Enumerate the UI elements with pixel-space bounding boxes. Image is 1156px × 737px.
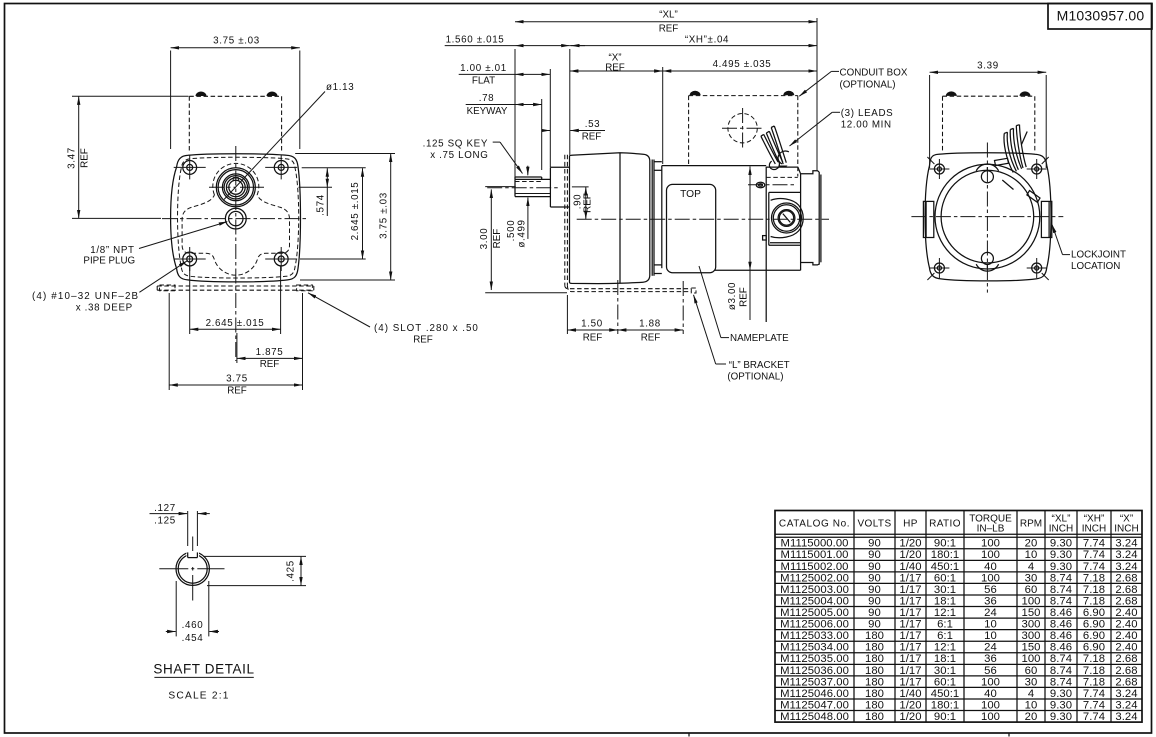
svg-text:90:1: 90:1 <box>934 538 956 550</box>
svg-text:9.30: 9.30 <box>1050 549 1072 561</box>
dimension 2.645 +-.015 (bottom bolt spacing) <box>190 328 281 330</box>
svg-text:90: 90 <box>868 561 881 573</box>
svg-text:150: 150 <box>1022 607 1041 619</box>
rear view: stray wire stroke <box>1022 132 1028 145</box>
svg-text:56: 56 <box>984 584 997 596</box>
svg-text:40: 40 <box>984 688 997 700</box>
svg-text:8.46: 8.46 <box>1050 619 1072 631</box>
dimension 3.75 +-.03 (top width) <box>170 51 172 150</box>
svg-text:56: 56 <box>984 665 997 677</box>
svg-text:2.40: 2.40 <box>1115 630 1137 642</box>
svg-text:7.18: 7.18 <box>1083 595 1105 607</box>
front view: bolt extension lines down <box>189 266 191 334</box>
svg-text:8.46: 8.46 <box>1050 607 1072 619</box>
front view: vertical centerline <box>235 146 237 361</box>
shaft detail: center crosshairs <box>159 568 188 570</box>
svg-text:7.74: 7.74 <box>1083 561 1105 573</box>
svg-text:2.645 ±.015: 2.645 ±.015 <box>350 182 361 241</box>
svg-text:REF: REF <box>641 333 661 344</box>
svg-text:7.74: 7.74 <box>1083 538 1105 550</box>
svg-text:REF: REF <box>605 62 625 73</box>
svg-text:4.495 ±.035: 4.495 ±.035 <box>713 59 772 70</box>
svg-text:M1125006.00: M1125006.00 <box>780 619 849 631</box>
side view: wire loops at base <box>769 161 779 169</box>
svg-text:100: 100 <box>981 538 1000 550</box>
svg-text:180: 180 <box>865 630 884 642</box>
svg-text:(4) #10–32 UNF–2B: (4) #10–32 UNF–2B <box>32 291 139 302</box>
svg-text:KEYWAY: KEYWAY <box>467 106 508 117</box>
svg-text:100: 100 <box>981 549 1000 561</box>
svg-text:12:1: 12:1 <box>934 642 956 654</box>
svg-text:2.40: 2.40 <box>1115 607 1137 619</box>
svg-text:24: 24 <box>984 642 997 654</box>
dimension 3.47 REF (left height) <box>72 95 189 97</box>
svg-text:3.39: 3.39 <box>977 60 999 71</box>
svg-text:IN–LB: IN–LB <box>977 524 1005 535</box>
svg-text:3.75 ±.03: 3.75 ±.03 <box>213 36 260 47</box>
svg-text:9.30: 9.30 <box>1050 538 1072 550</box>
svg-text:REF: REF <box>739 287 750 307</box>
svg-text:40: 40 <box>984 561 997 573</box>
front view: pipe plug circles <box>225 208 246 229</box>
svg-text:M1125003.00: M1125003.00 <box>780 584 849 596</box>
svg-text:300: 300 <box>1022 619 1041 631</box>
svg-text:ø.499: ø.499 <box>517 219 528 247</box>
svg-text:NAMEPLATE: NAMEPLATE <box>730 333 789 344</box>
svg-text:M1125036.00: M1125036.00 <box>780 665 849 677</box>
side view: output shaft key <box>515 176 542 178</box>
svg-text:.127: .127 <box>154 503 176 514</box>
svg-text:7.74: 7.74 <box>1083 711 1105 723</box>
svg-text:REF: REF <box>583 193 594 213</box>
dimension XH +-.04 and 1.560 +-.015 (shared line) <box>569 49 571 155</box>
svg-text:8.74: 8.74 <box>1050 665 1072 677</box>
side view: motor rear face line <box>765 167 767 322</box>
svg-text:60:1: 60:1 <box>934 676 956 688</box>
dimension .53 REF <box>543 130 551 132</box>
svg-text:1.88: 1.88 <box>639 319 661 330</box>
svg-text:SCALE 2:1: SCALE 2:1 <box>168 691 229 702</box>
svg-text:100: 100 <box>981 699 1000 711</box>
svg-text:30:1: 30:1 <box>934 665 956 677</box>
svg-text:REF: REF <box>227 386 247 397</box>
svg-text:“XH”±.04: “XH”±.04 <box>685 34 729 45</box>
svg-text:M1125002.00: M1125002.00 <box>780 572 849 584</box>
dimension X REF and 4.495 +-.035 (shared line) <box>662 67 664 164</box>
svg-text:7.18: 7.18 <box>1083 653 1105 665</box>
svg-text:20: 20 <box>1025 538 1038 550</box>
side view: motor cylinder body <box>662 165 766 167</box>
svg-text:100: 100 <box>981 572 1000 584</box>
svg-text:“L” BRACKET: “L” BRACKET <box>729 360 790 371</box>
svg-text:2.40: 2.40 <box>1115 619 1137 631</box>
rear view: conduit box bolt head arcs <box>946 91 957 96</box>
svg-text:(OPTIONAL): (OPTIONAL) <box>727 372 783 383</box>
side view: brake release keyhole circles <box>772 203 802 233</box>
svg-text:9.30: 9.30 <box>1050 561 1072 573</box>
svg-text:36: 36 <box>984 595 997 607</box>
svg-text:8.74: 8.74 <box>1050 572 1072 584</box>
side view: L-bracket (dashed, optional) <box>564 155 566 285</box>
svg-text:M1115002.00: M1115002.00 <box>781 561 849 573</box>
svg-text:10: 10 <box>1025 549 1038 561</box>
svg-text:HP: HP <box>903 519 918 530</box>
svg-text:3.47: 3.47 <box>67 147 78 169</box>
svg-text:8.74: 8.74 <box>1050 595 1072 607</box>
svg-text:90:1: 90:1 <box>934 711 956 723</box>
svg-text:9.30: 9.30 <box>1050 688 1072 700</box>
svg-text:300: 300 <box>1022 630 1041 642</box>
side view: rear end cover <box>818 172 820 265</box>
svg-text:x .38 DEEP: x .38 DEEP <box>76 303 133 314</box>
svg-text:24: 24 <box>984 607 997 619</box>
svg-text:.53: .53 <box>585 119 601 130</box>
dimension 2.645 +-.015 (right bolt spacing) <box>300 258 366 260</box>
rear view: lockjoint tab left <box>923 201 933 237</box>
front view: shaft keyway tick <box>232 177 234 181</box>
svg-text:1/20: 1/20 <box>899 549 921 561</box>
side view: brake housing behind motor <box>766 166 798 168</box>
side view: output shaft body <box>515 178 551 180</box>
svg-text:10: 10 <box>984 619 997 631</box>
svg-text:1/17: 1/17 <box>899 642 921 654</box>
svg-text:180: 180 <box>865 699 884 711</box>
svg-text:180: 180 <box>865 676 884 688</box>
svg-text:8.74: 8.74 <box>1050 584 1072 596</box>
rear view: motor shell inner circle <box>941 170 1034 263</box>
side view: gearbox bearing boss <box>549 167 551 207</box>
svg-text:TOP: TOP <box>680 189 701 200</box>
rear view: motor rear body outline <box>925 153 1051 281</box>
side view: gearbox rear flange rings <box>651 160 653 276</box>
svg-text:FLAT: FLAT <box>472 75 495 86</box>
svg-text:M1115001.00: M1115001.00 <box>781 549 849 561</box>
svg-text:SHAFT DETAIL: SHAFT DETAIL <box>153 662 254 677</box>
front view: output shaft bore circles o1.13 <box>216 168 255 207</box>
svg-text:8.74: 8.74 <box>1050 676 1072 688</box>
svg-text:LOCKJOINT: LOCKJOINT <box>1071 250 1126 261</box>
title block box <box>1048 4 1152 30</box>
svg-text:18:1: 18:1 <box>934 653 956 665</box>
svg-text:1.560 ±.015: 1.560 ±.015 <box>446 34 505 45</box>
dimension 1.88 REF <box>682 281 684 334</box>
svg-text:12:1: 12:1 <box>934 607 956 619</box>
svg-text:RPM: RPM <box>1020 519 1042 530</box>
svg-text:1.50: 1.50 <box>581 319 603 330</box>
svg-text:1/20: 1/20 <box>899 699 921 711</box>
svg-text:90: 90 <box>868 619 881 631</box>
dimension 1.00 +-.01 FLAT <box>549 69 551 167</box>
svg-text:6.90: 6.90 <box>1083 607 1105 619</box>
svg-text:M1125004.00: M1125004.00 <box>780 595 849 607</box>
side view: gearbox housing outline <box>570 153 650 284</box>
svg-text:180: 180 <box>865 688 884 700</box>
svg-text:.425: .425 <box>286 560 297 582</box>
side view: conduit box (dashed, optional) <box>688 96 690 165</box>
svg-text:180: 180 <box>865 665 884 677</box>
svg-text:4: 4 <box>1028 688 1034 700</box>
svg-text:36: 36 <box>984 653 997 665</box>
svg-text:450:1: 450:1 <box>931 561 960 573</box>
shaft detail: shaft circles <box>176 552 209 585</box>
svg-text:“XL”: “XL” <box>659 10 678 21</box>
dimension 3.75 REF (bottom full) <box>168 293 170 390</box>
shaft detail: keyway notch <box>187 552 189 557</box>
svg-text:2.68: 2.68 <box>1115 595 1137 607</box>
svg-text:60:1: 60:1 <box>934 572 956 584</box>
svg-text:3.24: 3.24 <box>1115 561 1137 573</box>
front view: horizontal centerline <box>162 218 307 220</box>
svg-text:REF: REF <box>492 229 503 249</box>
svg-text:1.00 ±.01: 1.00 ±.01 <box>460 63 507 74</box>
front view: motor outline hidden behind gearbox (dashed) <box>188 96 190 153</box>
svg-text:7.18: 7.18 <box>1083 572 1105 584</box>
svg-text:10: 10 <box>1025 699 1038 711</box>
svg-text:3.75: 3.75 <box>226 374 248 385</box>
svg-text:3.00: 3.00 <box>479 228 490 250</box>
svg-text:90: 90 <box>868 595 881 607</box>
front view: mounting-face edge (dashed inner outline) <box>178 157 299 278</box>
svg-text:100: 100 <box>1022 595 1041 607</box>
svg-text:1/17: 1/17 <box>899 665 921 677</box>
rear view: wire leader stroke inside shell <box>1002 180 1013 190</box>
svg-text:1/17: 1/17 <box>899 653 921 665</box>
side view: small bolt ellipse at brake <box>756 182 765 187</box>
dimension .425 with extension lines <box>203 555 306 557</box>
svg-text:30: 30 <box>1025 572 1038 584</box>
rear view: shell seam marks <box>995 158 1009 165</box>
svg-text:M1125005.00: M1125005.00 <box>780 607 849 619</box>
rear view: vertical centerline <box>986 143 988 293</box>
svg-text:100: 100 <box>981 676 1000 688</box>
bottom edge fold marks <box>688 733 690 737</box>
svg-text:1/40: 1/40 <box>899 561 921 573</box>
svg-text:1/17: 1/17 <box>899 676 921 688</box>
svg-text:7.74: 7.74 <box>1083 549 1105 561</box>
svg-text:2.40: 2.40 <box>1115 642 1137 654</box>
svg-text:18:1: 18:1 <box>934 595 956 607</box>
svg-text:ø3.00: ø3.00 <box>727 282 738 310</box>
svg-text:20: 20 <box>1025 711 1038 723</box>
svg-text:3.24: 3.24 <box>1115 699 1137 711</box>
dimension .90 REF (center offset) <box>572 186 589 188</box>
svg-text:6.90: 6.90 <box>1083 619 1105 631</box>
svg-text:M1125047.00: M1125047.00 <box>780 699 849 711</box>
dimension .78 KEYWAY <box>541 99 543 170</box>
svg-text:.125 SQ KEY: .125 SQ KEY <box>423 139 488 150</box>
rear view: corner diagonal ticks <box>927 157 934 164</box>
svg-text:90: 90 <box>868 549 881 561</box>
svg-text:30: 30 <box>1025 676 1038 688</box>
svg-text:3.24: 3.24 <box>1115 538 1137 550</box>
svg-text:REF: REF <box>583 333 603 344</box>
svg-text:.574: .574 <box>316 194 327 216</box>
svg-text:7.18: 7.18 <box>1083 676 1105 688</box>
svg-text:CATALOG No.: CATALOG No. <box>779 519 850 530</box>
svg-text:.454: .454 <box>182 633 204 644</box>
svg-text:INCH: INCH <box>1049 524 1073 535</box>
side view: shaft centerline <box>487 187 560 189</box>
svg-text:1/17: 1/17 <box>899 607 921 619</box>
svg-text:2.68: 2.68 <box>1115 572 1137 584</box>
svg-text:180: 180 <box>865 711 884 723</box>
svg-text:7.74: 7.74 <box>1083 688 1105 700</box>
svg-text:6.90: 6.90 <box>1083 630 1105 642</box>
svg-text:M1125046.00: M1125046.00 <box>780 688 849 700</box>
rear view: conduit box outline hidden (dashed) <box>942 96 944 152</box>
dimension 3.75 +-.03 (right height) <box>295 153 395 155</box>
side view: gearbox case split line <box>619 153 621 283</box>
svg-text:2.68: 2.68 <box>1115 676 1137 688</box>
svg-text:6:1: 6:1 <box>937 630 953 642</box>
front view: mounting bolt holes #10-32 <box>174 155 206 179</box>
svg-text:RATIO: RATIO <box>929 519 961 530</box>
dimension XL REF (overall length) <box>514 49 516 177</box>
svg-text:2.68: 2.68 <box>1115 653 1137 665</box>
svg-text:9.30: 9.30 <box>1050 711 1072 723</box>
svg-text:M1125034.00: M1125034.00 <box>780 642 849 654</box>
svg-text:1/20: 1/20 <box>899 538 921 550</box>
svg-text:3.24: 3.24 <box>1115 688 1137 700</box>
svg-text:60: 60 <box>1025 665 1038 677</box>
svg-text:M1115000.00: M1115000.00 <box>781 538 849 550</box>
front view: bolt head arcs on top of motor outline <box>196 92 207 97</box>
svg-text:60: 60 <box>1025 584 1038 596</box>
svg-text:M1125035.00: M1125035.00 <box>780 653 849 665</box>
dimension o3.00 REF (motor diameter) <box>749 166 751 270</box>
svg-text:1/17: 1/17 <box>899 595 921 607</box>
side view: motor leads (3 wires) <box>761 136 775 164</box>
svg-text:450:1: 450:1 <box>931 688 960 700</box>
front view: gasket clover outline (dashed) <box>182 163 289 275</box>
svg-text:90: 90 <box>868 538 881 550</box>
svg-text:1.875: 1.875 <box>256 347 284 358</box>
svg-text:9.30: 9.30 <box>1050 699 1072 711</box>
dimension 1.875 REF (bottom) <box>236 333 238 363</box>
svg-text:M1125048.00: M1125048.00 <box>780 711 849 723</box>
svg-text:LOCATION: LOCATION <box>1071 261 1120 272</box>
rear view: motor shell outer circle <box>935 164 1040 269</box>
svg-text:PIPE PLUG: PIPE PLUG <box>83 256 135 267</box>
side view: motor centerline <box>577 218 829 220</box>
svg-text:1/8” NPT: 1/8” NPT <box>90 245 134 256</box>
svg-text:1/20: 1/20 <box>899 711 921 723</box>
svg-text:.78: .78 <box>479 93 495 104</box>
rear view: lockjoint tab right <box>1041 201 1051 237</box>
dimension 3.00 REF (shaft height) <box>485 186 516 188</box>
svg-text:7.18: 7.18 <box>1083 584 1105 596</box>
svg-text:100: 100 <box>981 711 1000 723</box>
rear view: corner bolts <box>929 159 949 179</box>
svg-text:(4) SLOT .280 x .50: (4) SLOT .280 x .50 <box>374 323 479 334</box>
svg-text:VOLTS: VOLTS <box>857 519 891 530</box>
svg-text:30:1: 30:1 <box>934 584 956 596</box>
rear view: leads wires <box>1004 133 1013 172</box>
svg-text:x .75 LONG: x .75 LONG <box>430 150 488 161</box>
svg-text:4: 4 <box>1028 561 1034 573</box>
svg-text:1/17: 1/17 <box>899 584 921 596</box>
svg-text:7.18: 7.18 <box>1083 665 1105 677</box>
svg-text:1/17: 1/17 <box>899 619 921 631</box>
svg-text:ø1.13: ø1.13 <box>326 82 354 93</box>
specification table <box>775 511 1142 724</box>
svg-text:2.68: 2.68 <box>1115 665 1137 677</box>
front view: gearbox body outline <box>171 154 301 282</box>
svg-text:1/17: 1/17 <box>899 572 921 584</box>
svg-text:REF: REF <box>582 132 602 143</box>
svg-text:.460: .460 <box>182 620 204 631</box>
svg-text:180:1: 180:1 <box>931 699 960 711</box>
dimension .460/.454 shaft diameter <box>175 581 177 636</box>
svg-text:REF: REF <box>413 335 433 346</box>
svg-text:.125: .125 <box>154 516 176 527</box>
svg-text:2.645 ±.015: 2.645 ±.015 <box>206 318 265 329</box>
svg-text:1/40: 1/40 <box>899 688 921 700</box>
front view: L-bracket flange edge-on (dashed) with slots <box>157 285 314 287</box>
svg-text:INCH: INCH <box>1082 524 1106 535</box>
rear view: horizontal centerline <box>911 216 1063 218</box>
svg-text:(OPTIONAL): (OPTIONAL) <box>840 80 896 91</box>
rear view: through-bolt bottom <box>981 252 993 264</box>
svg-text:90: 90 <box>868 584 881 596</box>
svg-text:M1030957.00: M1030957.00 <box>1057 8 1145 24</box>
svg-text:(3) LEADS: (3) LEADS <box>841 108 894 119</box>
side view: conduit hole (dashed circle) with centerlines <box>728 114 757 143</box>
svg-text:M1125033.00: M1125033.00 <box>780 630 849 642</box>
svg-text:180: 180 <box>865 653 884 665</box>
svg-text:6:1: 6:1 <box>937 619 953 631</box>
side view: nameplate rounded rectangle TOP <box>667 184 716 272</box>
svg-text:REF: REF <box>80 148 91 168</box>
svg-text:8.46: 8.46 <box>1050 642 1072 654</box>
svg-text:7.74: 7.74 <box>1083 699 1105 711</box>
dimension 1.50 REF <box>566 295 568 334</box>
svg-text:6.90: 6.90 <box>1083 642 1105 654</box>
svg-text:3.24: 3.24 <box>1115 549 1137 561</box>
dimension .574 (right, shaft to bolt line) <box>299 186 333 188</box>
svg-text:3.75 ±.03: 3.75 ±.03 <box>378 192 389 239</box>
svg-text:M1125037.00: M1125037.00 <box>780 676 849 688</box>
svg-text:.500: .500 <box>506 220 517 242</box>
svg-text:2.68: 2.68 <box>1115 584 1137 596</box>
svg-text:REF: REF <box>659 24 679 35</box>
dimension 3.39 (rear width) <box>929 75 931 168</box>
svg-text:100: 100 <box>1022 653 1041 665</box>
svg-text:90: 90 <box>868 572 881 584</box>
svg-text:8.74: 8.74 <box>1050 653 1072 665</box>
svg-text:3.24: 3.24 <box>1115 711 1137 723</box>
rear view: through-bolt top <box>981 171 993 183</box>
svg-text:8.46: 8.46 <box>1050 630 1072 642</box>
dimension .500/.499 shaft diameter <box>527 198 529 239</box>
svg-text:INCH: INCH <box>1114 524 1138 535</box>
svg-text:12.00 MIN: 12.00 MIN <box>841 120 892 131</box>
svg-text:90: 90 <box>868 607 881 619</box>
side view: conduit box bolt head arcs <box>690 91 701 96</box>
svg-text:1/17: 1/17 <box>899 630 921 642</box>
svg-text:10: 10 <box>984 630 997 642</box>
svg-text:180:1: 180:1 <box>931 549 960 561</box>
svg-text:CONDUIT BOX: CONDUIT BOX <box>840 68 908 79</box>
svg-text:REF: REF <box>260 359 280 370</box>
svg-text:150: 150 <box>1022 642 1041 654</box>
front view: shaft horizontal centerline <box>209 186 236 188</box>
side view: hidden keyway line (dashed) <box>515 181 542 183</box>
svg-text:180: 180 <box>865 642 884 654</box>
shaft detail: keyway extension lines up <box>187 511 189 546</box>
